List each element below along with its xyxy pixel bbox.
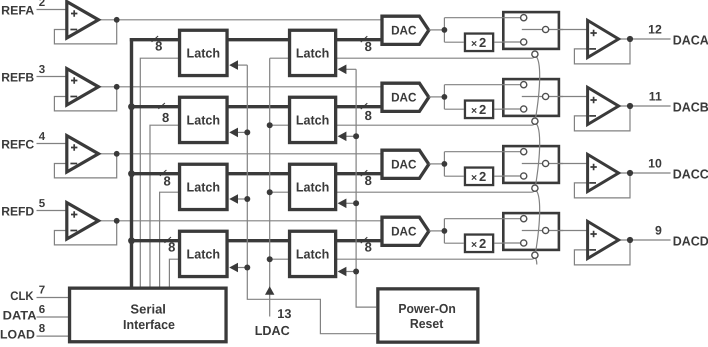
svg-text:DATA: DATA	[3, 308, 37, 322]
node buffer C output	[114, 151, 120, 157]
latch second rank A	[290, 30, 336, 75]
DAC A converter	[382, 16, 429, 44]
wire switch B pole to output buffer	[546, 96, 588, 98]
switch A pole wire inside	[546, 29, 564, 31]
latch second rank B	[290, 97, 336, 142]
latch first rank B	[180, 97, 228, 142]
DAC B converter	[382, 83, 429, 111]
svg-text:8: 8	[168, 240, 175, 255]
range switch box A	[503, 12, 559, 49]
wire DAC D output branch	[443, 219, 445, 244]
wire LDAC/range line row C to switch	[270, 189, 535, 192]
svg-text:×2: ×2	[471, 169, 486, 184]
node LDAC chain row C	[267, 189, 273, 195]
second latch A enable arrow	[338, 65, 357, 75]
second latch C enable arrow	[338, 199, 357, 209]
wire DAC A output	[429, 29, 445, 31]
switch C control contact	[532, 185, 538, 191]
switch C x2 wire inside	[502, 175, 524, 177]
wire x2 amp B to switch x2 input	[494, 108, 523, 110]
wire DAC C to switch x1 input	[444, 151, 523, 153]
wire DACD output pin	[617, 239, 671, 241]
wire LOAD input	[37, 335, 69, 337]
switch D pole wire inside	[546, 230, 564, 232]
first latch B enable arrow	[229, 128, 247, 138]
switch A control contact	[532, 51, 538, 57]
wire DAC C output branch	[443, 152, 445, 177]
wire REFC input	[37, 143, 67, 145]
wire x2 amp C to switch x2 input	[494, 175, 523, 177]
svg-text:REFD: REFD	[1, 205, 34, 219]
wire x2 amp D to switch x2 input	[494, 242, 523, 244]
bus slash row B second segment	[361, 103, 368, 109]
svg-text:2: 2	[39, 0, 45, 9]
switch C x1 contact	[521, 149, 527, 155]
first latch C enable arrow	[229, 194, 247, 204]
bus slash row A second segment	[361, 36, 368, 42]
node buffer D output	[114, 218, 120, 224]
svg-text:8: 8	[365, 173, 372, 188]
wire DACB output pin	[617, 105, 671, 107]
wire DAC A to x2 amp	[444, 41, 463, 43]
svg-text:8: 8	[163, 174, 170, 189]
svg-text:DACC: DACC	[673, 166, 708, 181]
range switch box D	[503, 213, 559, 250]
serial interface block	[70, 288, 227, 342]
op-amp reference buffer C	[67, 136, 99, 172]
svg-text:7: 7	[39, 284, 45, 296]
svg-text:13: 13	[277, 307, 291, 321]
x2 gain block D	[465, 235, 493, 253]
svg-text:4: 4	[39, 131, 46, 143]
wire 8-bit bus row A	[130, 38, 382, 41]
switch D x1 wire inside	[502, 218, 524, 220]
svg-text:DAC: DAC	[391, 91, 416, 105]
svg-text:REFA: REFA	[1, 4, 34, 18]
svg-text:DACB: DACB	[673, 99, 708, 114]
wire buffer C feedback	[54, 154, 116, 178]
switch A x2 contact	[521, 39, 527, 45]
switch B pole wire inside	[546, 96, 564, 98]
svg-text:Latch: Latch	[187, 180, 221, 195]
switch D x2 contact	[521, 240, 527, 246]
wire DAC B to switch x1 input	[444, 84, 523, 86]
bus slash row C second segment	[361, 170, 368, 176]
switch C pole contact	[543, 160, 549, 166]
svg-text:Latch: Latch	[296, 247, 330, 262]
node second-latch chain row B	[353, 133, 359, 139]
node DAC B output	[442, 94, 448, 100]
wire switch A pole to output buffer	[546, 29, 588, 31]
wire output buffer A feedback	[574, 39, 630, 64]
second latch D enable arrow	[338, 267, 357, 277]
svg-text:Latch: Latch	[296, 46, 330, 61]
switch A pole contact	[543, 26, 549, 32]
latch second rank D	[290, 231, 336, 276]
wire 8-bit bus row D	[130, 239, 382, 242]
wire main 8-bit vertical bus	[130, 38, 133, 287]
x2 gain block A	[465, 34, 493, 52]
node second-latch chain row D	[353, 269, 359, 275]
svg-text:Latch: Latch	[296, 113, 330, 128]
svg-text:DAC: DAC	[391, 24, 416, 38]
wire second-latch enable chain to Power-On Reset	[356, 69, 376, 307]
svg-text:LOAD: LOAD	[0, 328, 35, 342]
svg-text:8: 8	[39, 323, 46, 335]
svg-text:8: 8	[162, 110, 169, 125]
switch B x1 wire inside	[502, 84, 524, 86]
op-amp output buffer C	[588, 154, 619, 191]
wire buffer B output to DAC ref input	[97, 86, 383, 88]
x2 gain block B	[465, 101, 493, 119]
wire 8-bit bus row B	[130, 105, 382, 108]
wire buffer D output to DAC ref input	[97, 220, 383, 222]
wire LDAC line	[269, 58, 271, 316]
wire latch enable C (select line to first latch)	[160, 192, 180, 286]
wire buffer B feedback	[54, 87, 116, 111]
switch B x2 contact	[521, 106, 527, 112]
svg-text:Latch: Latch	[296, 180, 330, 195]
LDAC arrowhead	[265, 286, 274, 294]
wire output buffer C feedback	[574, 173, 630, 198]
x2 gain block C	[465, 168, 493, 186]
wire output buffer D feedback	[574, 240, 630, 265]
switch B x2 wire inside	[502, 108, 524, 110]
wire switch C pole to output buffer	[546, 163, 588, 165]
wire DAC C to x2 amp	[444, 175, 463, 177]
bus slash row D second segment	[361, 237, 368, 243]
switch C pole wire inside	[546, 163, 564, 165]
switch B control contact	[532, 118, 538, 124]
svg-text:5: 5	[39, 198, 46, 210]
wire x2 amp A to switch x2 input	[494, 41, 523, 43]
bus slash row D first segment	[165, 237, 172, 243]
node first-latch chain row D	[244, 265, 250, 271]
wire DAC B output branch	[443, 85, 445, 110]
node DAC A output	[442, 27, 448, 33]
svg-text:LDAC: LDAC	[255, 323, 291, 338]
wire buffer A feedback	[54, 20, 116, 44]
svg-text:11: 11	[649, 89, 662, 103]
bus slash row C first segment	[160, 170, 167, 176]
svg-text:Latch: Latch	[187, 113, 221, 128]
switch C lever	[522, 163, 546, 165]
switch A lever	[522, 29, 546, 31]
wire DAC B to x2 amp	[444, 108, 463, 110]
svg-text:×2: ×2	[471, 236, 486, 251]
wire DAC D to x2 amp	[444, 242, 463, 244]
switch D x2 wire inside	[502, 242, 524, 244]
node bus junction row B	[128, 103, 135, 110]
switch B lever	[522, 96, 546, 98]
wire DAC D output	[429, 230, 445, 232]
wire 8-bit bus row C	[130, 172, 382, 175]
DAC D converter	[382, 217, 429, 245]
node first-latch chain row C	[244, 196, 250, 202]
wire DAC A output branch	[443, 18, 445, 43]
svg-text:REFB: REFB	[1, 71, 34, 85]
bus slash row B first segment	[158, 103, 165, 109]
node bus junction row C	[128, 170, 135, 177]
svg-text:DAC: DAC	[391, 158, 416, 172]
wire REFB input	[37, 76, 67, 78]
svg-text:8: 8	[365, 39, 372, 54]
switch A x2 wire inside	[502, 41, 524, 43]
power-on reset block	[378, 289, 478, 342]
svg-text:×2: ×2	[471, 102, 486, 117]
node DAC C output	[442, 161, 448, 167]
second latch B enable arrow	[338, 132, 357, 142]
node LDAC chain row B	[267, 122, 273, 128]
wire buffer A output to DAC ref input	[97, 19, 383, 21]
latch second rank C	[290, 164, 336, 209]
wire DAC D to switch x1 input	[444, 218, 523, 220]
wire LDAC/range line row D to switch	[270, 256, 535, 259]
node output buffer D	[627, 237, 633, 243]
node buffer A output	[114, 17, 120, 23]
switch D control contact	[532, 252, 538, 258]
wire latch enable A (select line to first latch)	[140, 58, 180, 286]
svg-text:Reset: Reset	[410, 316, 444, 331]
svg-text:Latch: Latch	[187, 247, 221, 262]
svg-text:DACA: DACA	[673, 32, 708, 47]
switch B pole contact	[543, 93, 549, 99]
node output buffer C	[627, 170, 633, 176]
wire DAC B output	[429, 96, 445, 98]
wire switch D pole to output buffer	[546, 230, 588, 232]
latch first rank A	[180, 30, 228, 75]
node LDAC chain row D	[267, 256, 273, 262]
op-amp output buffer D	[588, 221, 619, 258]
op-amp reference buffer D	[67, 203, 99, 239]
op-amp reference buffer B	[67, 69, 99, 105]
switch C x2 contact	[521, 173, 527, 179]
first latch D enable arrow	[229, 263, 247, 273]
switch A x1 wire inside	[502, 17, 524, 19]
svg-text:Latch: Latch	[187, 46, 221, 61]
wire CLK input	[37, 297, 69, 299]
svg-text:Power-On: Power-On	[398, 301, 456, 316]
wire buffer C output to DAC ref input	[97, 153, 383, 155]
svg-text:Interface: Interface	[123, 317, 175, 332]
node output buffer B	[627, 103, 633, 109]
switch B x1 contact	[521, 82, 527, 88]
node first-latch chain row B	[244, 129, 250, 135]
switch D pole contact	[543, 227, 549, 233]
switch A x1 contact	[521, 15, 527, 21]
first latch A enable arrow	[229, 60, 247, 70]
wire output buffer B feedback	[574, 106, 630, 131]
wire REFD input	[37, 210, 67, 212]
svg-text:8: 8	[155, 39, 162, 54]
op-amp reference buffer A	[67, 2, 99, 38]
node DAC D output	[442, 228, 448, 234]
svg-text:10: 10	[648, 156, 662, 170]
wire REFA input	[37, 9, 67, 11]
node bus junction row D	[128, 237, 135, 244]
wire DACA output pin	[617, 38, 671, 40]
latch first rank C	[180, 164, 228, 209]
op-amp output buffer B	[588, 87, 619, 124]
svg-text:9: 9	[655, 223, 662, 237]
wire latch enable B (select line to first latch)	[150, 125, 180, 286]
svg-text:3: 3	[39, 64, 45, 76]
wire DAC C output	[429, 163, 445, 165]
svg-text:6: 6	[39, 304, 45, 316]
op-amp output buffer A	[588, 20, 619, 57]
svg-text:12: 12	[648, 22, 662, 36]
svg-text:DACD: DACD	[673, 233, 708, 248]
DAC C converter	[382, 150, 429, 178]
switch C x1 wire inside	[502, 151, 524, 153]
wire first-latch enable chain to Power-On Reset	[247, 65, 376, 334]
svg-text:REFC: REFC	[1, 138, 34, 152]
range switch box C	[503, 146, 559, 183]
node second-latch chain row C	[353, 200, 359, 206]
svg-text:Serial: Serial	[130, 302, 166, 317]
switch D lever	[522, 230, 546, 232]
wire DATA input	[37, 316, 69, 318]
latch first rank D	[180, 231, 228, 276]
node output buffer A	[627, 36, 633, 42]
wire LDAC/range line row A to switch	[270, 55, 535, 58]
switch D x1 contact	[521, 216, 527, 222]
svg-text:DAC: DAC	[391, 225, 416, 239]
wire LDAC/range line row B to switch	[270, 122, 535, 125]
svg-text:×2: ×2	[471, 35, 486, 50]
node buffer B output	[114, 84, 120, 90]
range switch box B	[503, 79, 559, 116]
wire DACC output pin	[617, 172, 671, 174]
wire buffer D feedback	[54, 221, 116, 245]
bus slash row A first segment	[152, 36, 159, 42]
wire DAC A to switch x1 input	[444, 17, 523, 19]
svg-text:CLK: CLK	[10, 289, 33, 303]
svg-text:8: 8	[365, 239, 372, 254]
svg-text:8: 8	[365, 108, 372, 123]
wire latch enable D (select line to first latch)	[169, 259, 180, 286]
switch gang linkage line	[535, 57, 539, 265]
